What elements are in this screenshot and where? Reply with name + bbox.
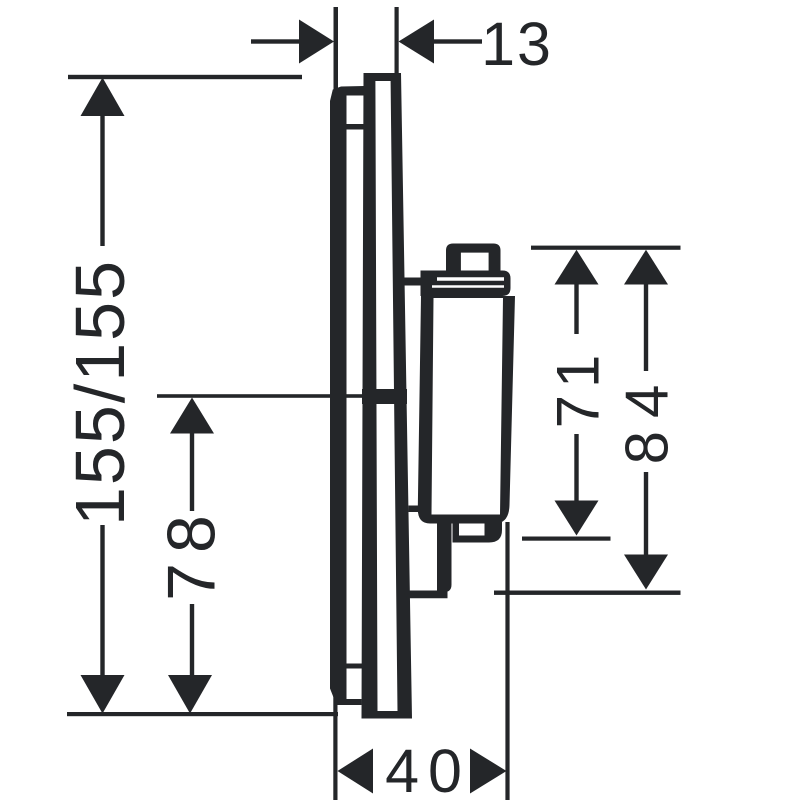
baseline bottom tick line	[67, 712, 338, 716]
dim78 line upper	[190, 429, 194, 511]
dim71 line lower	[574, 434, 578, 503]
dim13 tail line right	[433, 39, 482, 43]
dim155 line lower	[100, 525, 104, 678]
plate front escutcheon (wedge profile with window)	[362, 73, 413, 719]
dim13 extension line right (plate front)	[395, 7, 399, 75]
dim40 extension line right	[505, 522, 509, 800]
cartridge cap (with slits)	[421, 271, 511, 297]
dim84 line lower	[644, 472, 648, 557]
plate back carrier (wall plate rear layer)	[330, 86, 364, 705]
dim40 arrowhead right	[470, 749, 507, 794]
dim71 bottom tick line	[522, 537, 611, 541]
dim13 extension line left (wall plane)	[334, 7, 339, 100]
dim155 line upper	[100, 112, 104, 246]
dim71 arrowhead down	[555, 501, 599, 536]
dim71/84 top tick line	[531, 246, 681, 250]
plate gap tab bottom	[346, 664, 362, 669]
svg-text:84: 84	[614, 372, 681, 465]
dim13 arrowhead right	[399, 20, 435, 64]
plate mid crossing block	[362, 389, 407, 404]
dim84 line upper	[644, 280, 648, 371]
svg-text:40: 40	[385, 737, 471, 800]
dim71 line upper	[574, 280, 578, 334]
cartridge upper ledge	[399, 278, 421, 286]
dim78 arrowhead up	[170, 398, 214, 434]
dim155 arrowhead down	[81, 675, 125, 714]
dim40 extension line left	[333, 695, 337, 800]
svg-text:78: 78	[154, 505, 230, 601]
dim78 line lower	[190, 604, 194, 681]
cartridge leg	[437, 522, 452, 592]
dim155 arrowhead up	[81, 78, 125, 117]
cartridge lower block with slot	[453, 522, 503, 543]
cartridge foot bar	[404, 591, 448, 599]
dim84 arrowhead up	[624, 250, 668, 285]
cartridge knob (stop button)	[446, 244, 501, 271]
dim71 arrowhead up	[555, 250, 599, 285]
dim84 arrowhead down	[624, 555, 668, 590]
dim155 top tick line	[68, 75, 302, 79]
dim13 tail line left	[251, 39, 301, 43]
plate gap tab top	[346, 124, 364, 130]
svg-text:71: 71	[545, 348, 612, 429]
svg-text:13: 13	[481, 10, 553, 78]
dim40 arrowhead left	[338, 749, 374, 794]
dim78 mid tick line	[157, 394, 364, 398]
cartridge body (valve housing)	[418, 296, 515, 524]
dim78 arrowhead down	[168, 675, 212, 714]
dim13 arrowhead left	[299, 20, 334, 64]
dim84 bottom tick line	[494, 591, 681, 595]
cartridge lower ledge	[409, 506, 420, 513]
svg-text:155/155: 155/155	[61, 259, 139, 526]
